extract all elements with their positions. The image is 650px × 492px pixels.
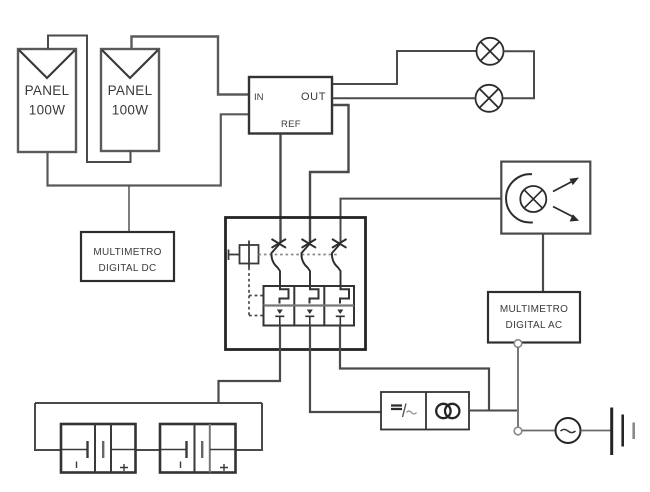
multimeter DC box [81, 232, 174, 281]
breaker pole 1 contact X [272, 239, 287, 248]
wire breaker pole 2 to inverter [310, 326, 381, 413]
magnetic trip element pole 3 [336, 310, 345, 326]
battery B2 [160, 424, 236, 473]
ground symbol [612, 408, 634, 456]
inverter box [381, 392, 469, 430]
wire inverter output to AC node [469, 410, 517, 412]
wire tap to DC multimeter [128, 186, 130, 233]
mechanical linkage dashed branch upper [249, 295, 264, 297]
magnetic trip element pole 1 [275, 310, 284, 326]
wire controller OUT to lamp L1 [333, 51, 477, 84]
thermal trip element pole 1 [280, 286, 289, 304]
wire controller REF to breaker pole 1 [279, 134, 281, 243]
breaker pole 2 contact X [302, 239, 317, 248]
wire lamp L2 return to controller OUT [333, 97, 476, 99]
solar panel PV1 [18, 49, 76, 152]
wire battery top bus [35, 402, 262, 404]
wire breaker pole 3 to AC junction [340, 326, 489, 411]
magnetic trip element pole 2 [305, 310, 314, 326]
svg-text:DIGITAL AC: DIGITAL AC [506, 320, 563, 331]
wire breaker pole 1 to battery bank [219, 326, 281, 404]
svg-text:PANEL: PANEL [108, 83, 153, 98]
thermal trip element pole 2 [310, 286, 319, 304]
breaker actuator tick [229, 250, 240, 261]
svg-text:MULTIMETRO: MULTIMETRO [500, 304, 568, 315]
breaker pole 3 blade [332, 244, 341, 286]
wire AC multimeter to lower node [517, 347, 519, 427]
mechanical linkage dashed branch lower [249, 315, 264, 317]
wire breaker pole 3 to fan box [341, 199, 502, 243]
svg-text:100W: 100W [112, 103, 148, 118]
breaker pole 1 blade [271, 244, 280, 286]
wire battery bus left drop [35, 403, 61, 450]
wire battery link [136, 449, 161, 451]
fan box M1 [501, 162, 590, 234]
wire lamp L1 to lamp L2 (right loop) [503, 51, 535, 98]
svg-text:REF: REF [281, 119, 301, 130]
breaker pole 2 blade [301, 244, 310, 286]
mechanical linkage dashed line horizontal [259, 254, 339, 256]
wire battery bus right drop [236, 403, 263, 450]
wire fan box to AC multimeter [542, 234, 544, 292]
wire PV2 top to controller IN upper [132, 37, 250, 95]
svg-text:MULTIMETRO: MULTIMETRO [93, 247, 161, 258]
breaker actuator square [240, 241, 259, 268]
wire PV1 bottom to controller IN lower [48, 114, 250, 185]
AC source G1 [556, 418, 581, 443]
node junction at AC multimeter [514, 340, 522, 348]
svg-text:PANEL: PANEL [25, 83, 70, 98]
svg-text:100W: 100W [29, 103, 65, 118]
wire controller OUT lower to breaker pole 2 [310, 105, 349, 243]
thermal trip element pole 3 [340, 286, 349, 304]
trip unit box [264, 286, 355, 326]
lamp L1 [477, 38, 504, 65]
charge controller U1 [249, 77, 332, 134]
node junction at AC line [514, 427, 522, 435]
wire AC source to ground [581, 430, 611, 432]
lamp L2 [476, 85, 503, 112]
wire PV1 top to PV2 bottom (series link) [48, 36, 131, 163]
svg-text:DIGITAL DC: DIGITAL DC [98, 263, 156, 274]
multimeter AC box [488, 292, 580, 343]
wire node to AC source [522, 430, 556, 432]
solar panel PV2 [101, 49, 159, 151]
circuit breaker CB1 outer box [226, 218, 366, 350]
mechanical linkage dashed line vertical [248, 268, 250, 317]
battery B1 [61, 424, 136, 473]
svg-text:IN: IN [254, 92, 264, 103]
breaker pole 3 contact X [332, 239, 347, 248]
svg-text:OUT: OUT [301, 91, 326, 103]
